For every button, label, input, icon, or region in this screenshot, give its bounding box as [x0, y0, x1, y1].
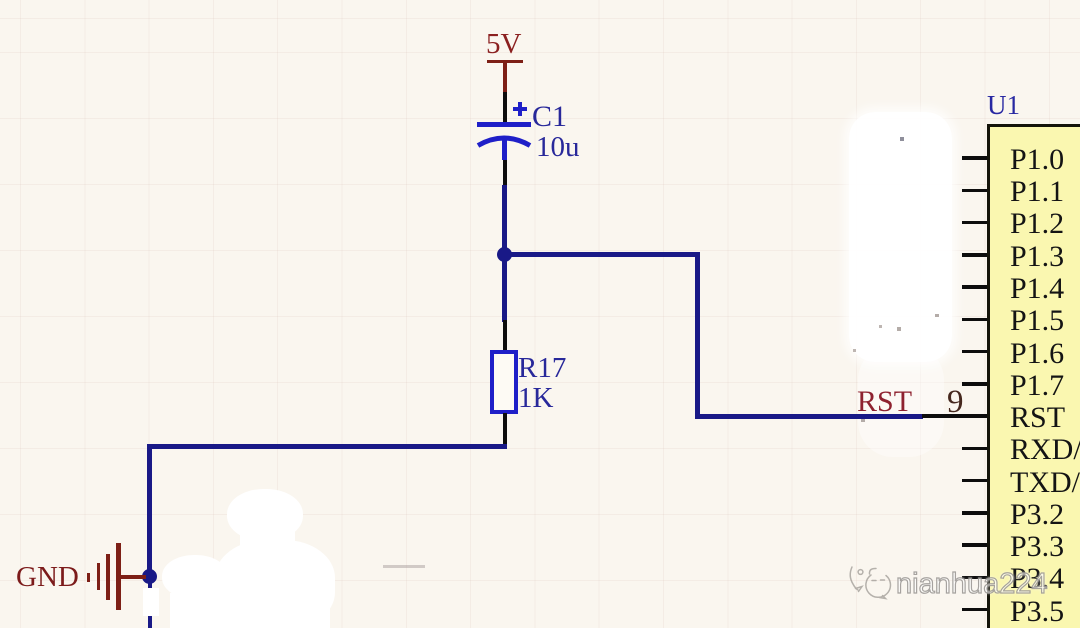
pin name P1.1	[1010, 177, 1064, 207]
wire below ground junction	[148, 577, 153, 628]
ground bar 2	[97, 563, 101, 590]
capacitor C1 designator	[532, 102, 567, 132]
pin name P1.5	[1010, 306, 1064, 336]
pin RST long black pin	[922, 414, 987, 418]
pin name TXD/P3.1	[1010, 468, 1080, 498]
pin tick P3.3	[962, 543, 987, 547]
pin name P1.2	[1010, 209, 1064, 239]
pin tick P1.5	[962, 318, 987, 322]
pin name P3.5	[1010, 597, 1064, 627]
pin name P1.7	[1010, 371, 1064, 401]
pin tick P1.2	[962, 221, 987, 225]
pin name P1.0	[1010, 145, 1064, 175]
op-amp U1 chip body	[987, 124, 1080, 628]
pin name P1.4	[1010, 274, 1064, 304]
wire cap to junction	[502, 185, 507, 255]
power port 5V leg	[503, 62, 507, 92]
pin name P1.3	[1010, 242, 1064, 272]
white erase blob over wire below junction	[143, 588, 159, 616]
ground bar 4	[116, 543, 121, 610]
pin tick P1.4	[962, 285, 987, 289]
gray smear	[383, 565, 425, 568]
ground GND label	[16, 563, 79, 592]
pin tick P1.6	[962, 350, 987, 354]
resistor R17 value 1K	[518, 384, 553, 413]
white erase blob left of chip (under elements)	[849, 112, 952, 362]
pin tick TXD	[962, 479, 987, 483]
watermark text nianhua224	[896, 570, 1048, 599]
white erase blob right of ground	[227, 489, 303, 541]
watermark icon	[846, 562, 896, 604]
pin tick P3.2	[962, 511, 987, 515]
wire right vertical	[695, 252, 700, 419]
pin name P1.6	[1010, 339, 1064, 369]
capacitor C1 top pin	[503, 92, 507, 123]
pin tick RXD	[962, 447, 987, 451]
wire resistor to left	[147, 444, 507, 449]
wire RST horizontal	[695, 414, 923, 419]
ground bar 1	[87, 573, 90, 582]
resistor R17 top pin	[503, 320, 507, 351]
pin name RST	[1010, 403, 1065, 433]
pin tick P1.0	[962, 156, 987, 160]
ground bar 3	[106, 554, 110, 601]
resistor R17 designator	[518, 354, 566, 383]
capacitor C1 plus sign	[513, 107, 527, 111]
power port 5V label	[486, 30, 521, 59]
ground leg	[119, 575, 146, 579]
pin 9 number	[947, 386, 964, 419]
resistor R17 bottom pin	[503, 413, 507, 446]
capacitor C1 top plate	[477, 122, 531, 127]
wire junction to right	[502, 252, 700, 257]
pin tick P3.5	[962, 608, 987, 612]
junction node A dot	[497, 247, 512, 262]
capacitor C1 bottom pin	[503, 160, 507, 186]
pin name P3.2	[1010, 500, 1064, 530]
resistor R17 body	[490, 350, 518, 414]
pin tick P3.4	[962, 576, 987, 580]
pin name P3.3	[1010, 532, 1064, 562]
pin name RXD/P3.0	[1010, 435, 1080, 465]
pin name P3.4	[1010, 564, 1064, 594]
junction node GND dot	[142, 569, 157, 584]
wire left vertical down	[147, 444, 152, 579]
capacitor C1 bottom stub	[502, 140, 507, 160]
capacitor C1 value 10u	[536, 133, 580, 162]
pin tick P1.1	[962, 189, 987, 193]
power port 5V bar	[487, 60, 523, 64]
pin tick P1.7	[962, 382, 987, 386]
wire junction to resistor	[502, 252, 507, 322]
gray specks from erasing	[897, 327, 901, 331]
pin tick P1.3	[962, 253, 987, 257]
capacitor C1 curved bottom plate	[470, 130, 540, 156]
net label RST	[857, 387, 912, 417]
chip U1 designator	[987, 92, 1020, 119]
